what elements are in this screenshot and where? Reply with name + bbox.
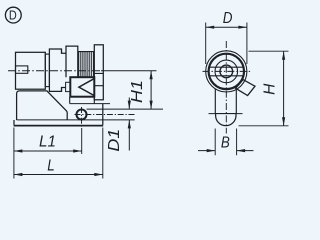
svg-text:H1: H1 (128, 80, 146, 103)
svg-text:H: H (262, 83, 279, 95)
svg-text:D1: D1 (105, 129, 123, 152)
svg-text:D: D (223, 10, 233, 27)
svg-text:L1: L1 (39, 133, 56, 150)
svg-text:B: B (221, 134, 230, 151)
svg-text:D: D (9, 8, 17, 23)
svg-text:L: L (47, 158, 54, 175)
